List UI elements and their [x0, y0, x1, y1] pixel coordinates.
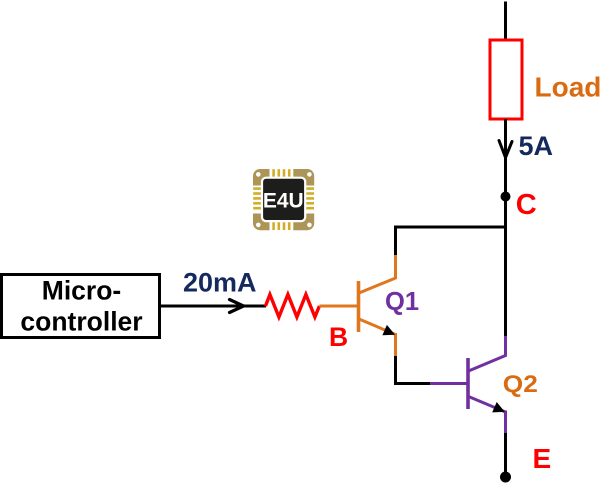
logo gold pins left: [253, 187, 262, 209]
microcontroller box: [2, 275, 160, 338]
wire load to node C: [504, 119, 507, 197]
logo edge cutouts: [270, 167, 294, 179]
E4U chip logo: [251, 167, 316, 232]
resistor R (base resistor): [266, 295, 320, 318]
svg-text:controller: controller: [20, 307, 142, 337]
transistor Q2 base bar: [466, 358, 470, 409]
node C junction dot: [501, 192, 511, 202]
wire Q2 emitter down to terminal E: [504, 433, 507, 475]
svg-text:Micro-: Micro-: [42, 276, 122, 306]
transistor Q1 base bar: [357, 281, 361, 332]
svg-text:5A: 5A: [519, 131, 554, 161]
svg-text:20mA: 20mA: [183, 268, 257, 298]
load resistor (red rectangle): [490, 40, 522, 119]
current arrow 5A: [499, 141, 506, 158]
wire microcontroller to resistor: [160, 305, 266, 308]
wire branch to Q1 collector: [396, 227, 506, 256]
Q1 emitter lead: [359, 319, 396, 335]
svg-text:Load: Load: [535, 72, 600, 103]
svg-text:E4U: E4U: [263, 189, 304, 212]
arrowhead 20mA: [230, 300, 244, 307]
logo black chip body: [262, 178, 305, 221]
Q1 emitter arrowhead: [382, 325, 395, 335]
Q2 emitter lead: [469, 397, 506, 413]
Q2 emitter arrowhead: [492, 402, 505, 412]
logo gold pins right: [305, 187, 314, 209]
logo gold pins bottom: [272, 221, 290, 230]
wire node C down to Q2 collector: [504, 197, 507, 338]
svg-text:Q1: Q1: [385, 288, 419, 316]
Q1 collector lead: [359, 255, 396, 293]
svg-text:C: C: [516, 189, 537, 221]
Q2 collector lead: [469, 336, 506, 371]
svg-text:B: B: [329, 322, 348, 352]
wire Q1 emitter to Q2 base (black part): [396, 356, 432, 384]
wire resistor to Q1 base: [319, 305, 357, 308]
wire top supply to load: [504, 2, 507, 42]
logo gold pins top: [272, 169, 290, 178]
wire to Q2 base (purple part): [430, 382, 467, 385]
logo corner holes: [256, 172, 312, 227]
terminal E dot: [500, 472, 511, 483]
svg-text:Q2: Q2: [503, 371, 538, 398]
svg-text:E: E: [533, 443, 552, 474]
logo outer tan pad: [253, 169, 314, 230]
